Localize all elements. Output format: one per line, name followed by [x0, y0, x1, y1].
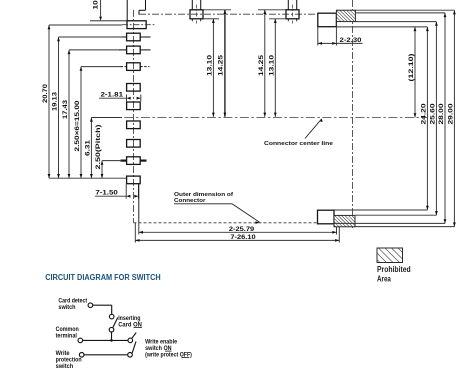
svg-text:7-26.10: 7-26.10 — [230, 234, 256, 241]
svg-text:14.25: 14.25 — [218, 55, 225, 76]
svg-text:17.43: 17.43 — [62, 100, 69, 119]
svg-text:(12.10): (12.10) — [408, 54, 415, 82]
svg-text:2.50×6=15.00: 2.50×6=15.00 — [74, 100, 81, 151]
svg-text:13.10: 13.10 — [206, 55, 213, 76]
svg-text:19.13: 19.13 — [52, 92, 59, 111]
svg-text:6.31: 6.31 — [84, 140, 91, 156]
svg-text:25.60: 25.60 — [429, 103, 436, 124]
svg-text:24.20: 24.20 — [420, 103, 427, 124]
svg-text:14.25: 14.25 — [258, 55, 265, 76]
svg-text:2.50(Pitch): 2.50(Pitch) — [95, 125, 102, 170]
svg-text:switch: switch — [58, 304, 75, 311]
svg-text:29.00: 29.00 — [447, 103, 454, 124]
svg-text:13.10: 13.10 — [268, 55, 275, 76]
svg-text:28.00: 28.00 — [438, 103, 445, 124]
svg-text:2-2.30: 2-2.30 — [340, 37, 363, 44]
svg-text:Prohibited: Prohibited — [377, 265, 411, 274]
svg-text:Area: Area — [377, 275, 391, 284]
svg-text:CIRCUIT DIAGRAM FOR SWITCH: CIRCUIT DIAGRAM FOR SWITCH — [45, 273, 161, 282]
svg-text:terminal: terminal — [56, 333, 78, 340]
svg-text:10-: 10- — [93, 0, 100, 10]
svg-text:7-1.50: 7-1.50 — [95, 190, 118, 197]
svg-text:switch: switch — [56, 363, 74, 370]
svg-text:Connector: Connector — [174, 198, 206, 204]
svg-text:2-1.81: 2-1.81 — [101, 92, 124, 99]
svg-text:Connector center line: Connector center line — [264, 141, 334, 147]
svg-text:2-25.79: 2-25.79 — [229, 226, 255, 233]
svg-text:20.70: 20.70 — [42, 84, 49, 103]
svg-text:Outer dimension of: Outer dimension of — [174, 192, 233, 198]
